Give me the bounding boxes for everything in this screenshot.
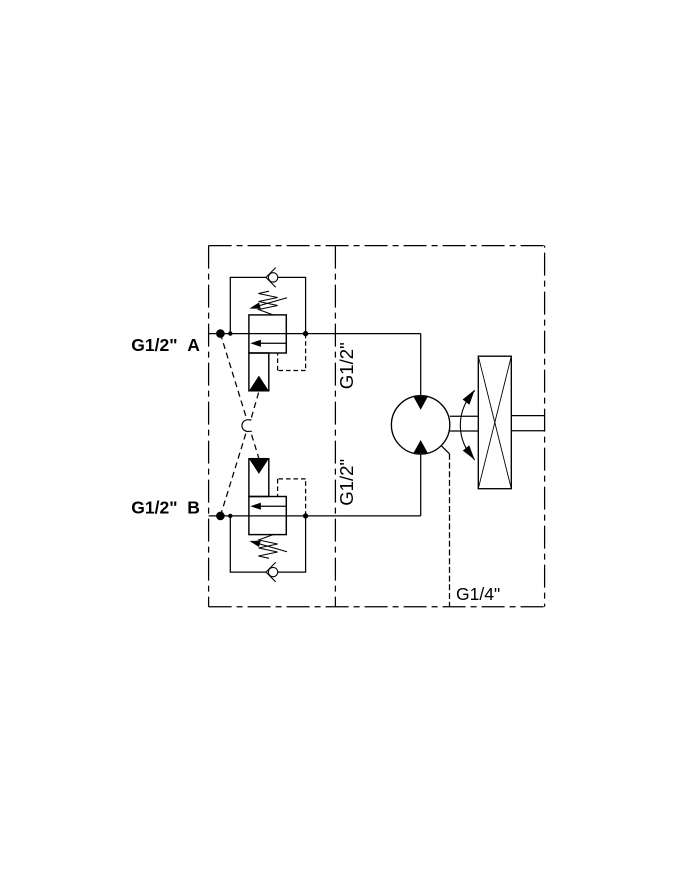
- svg-text:G1/2": G1/2": [336, 459, 357, 506]
- svg-text:G1/2": G1/2": [336, 342, 357, 389]
- svg-text:G1/2" B: G1/2" B: [131, 497, 200, 517]
- svg-text:G1/4": G1/4": [456, 584, 500, 604]
- svg-text:G1/2" A: G1/2" A: [131, 335, 200, 355]
